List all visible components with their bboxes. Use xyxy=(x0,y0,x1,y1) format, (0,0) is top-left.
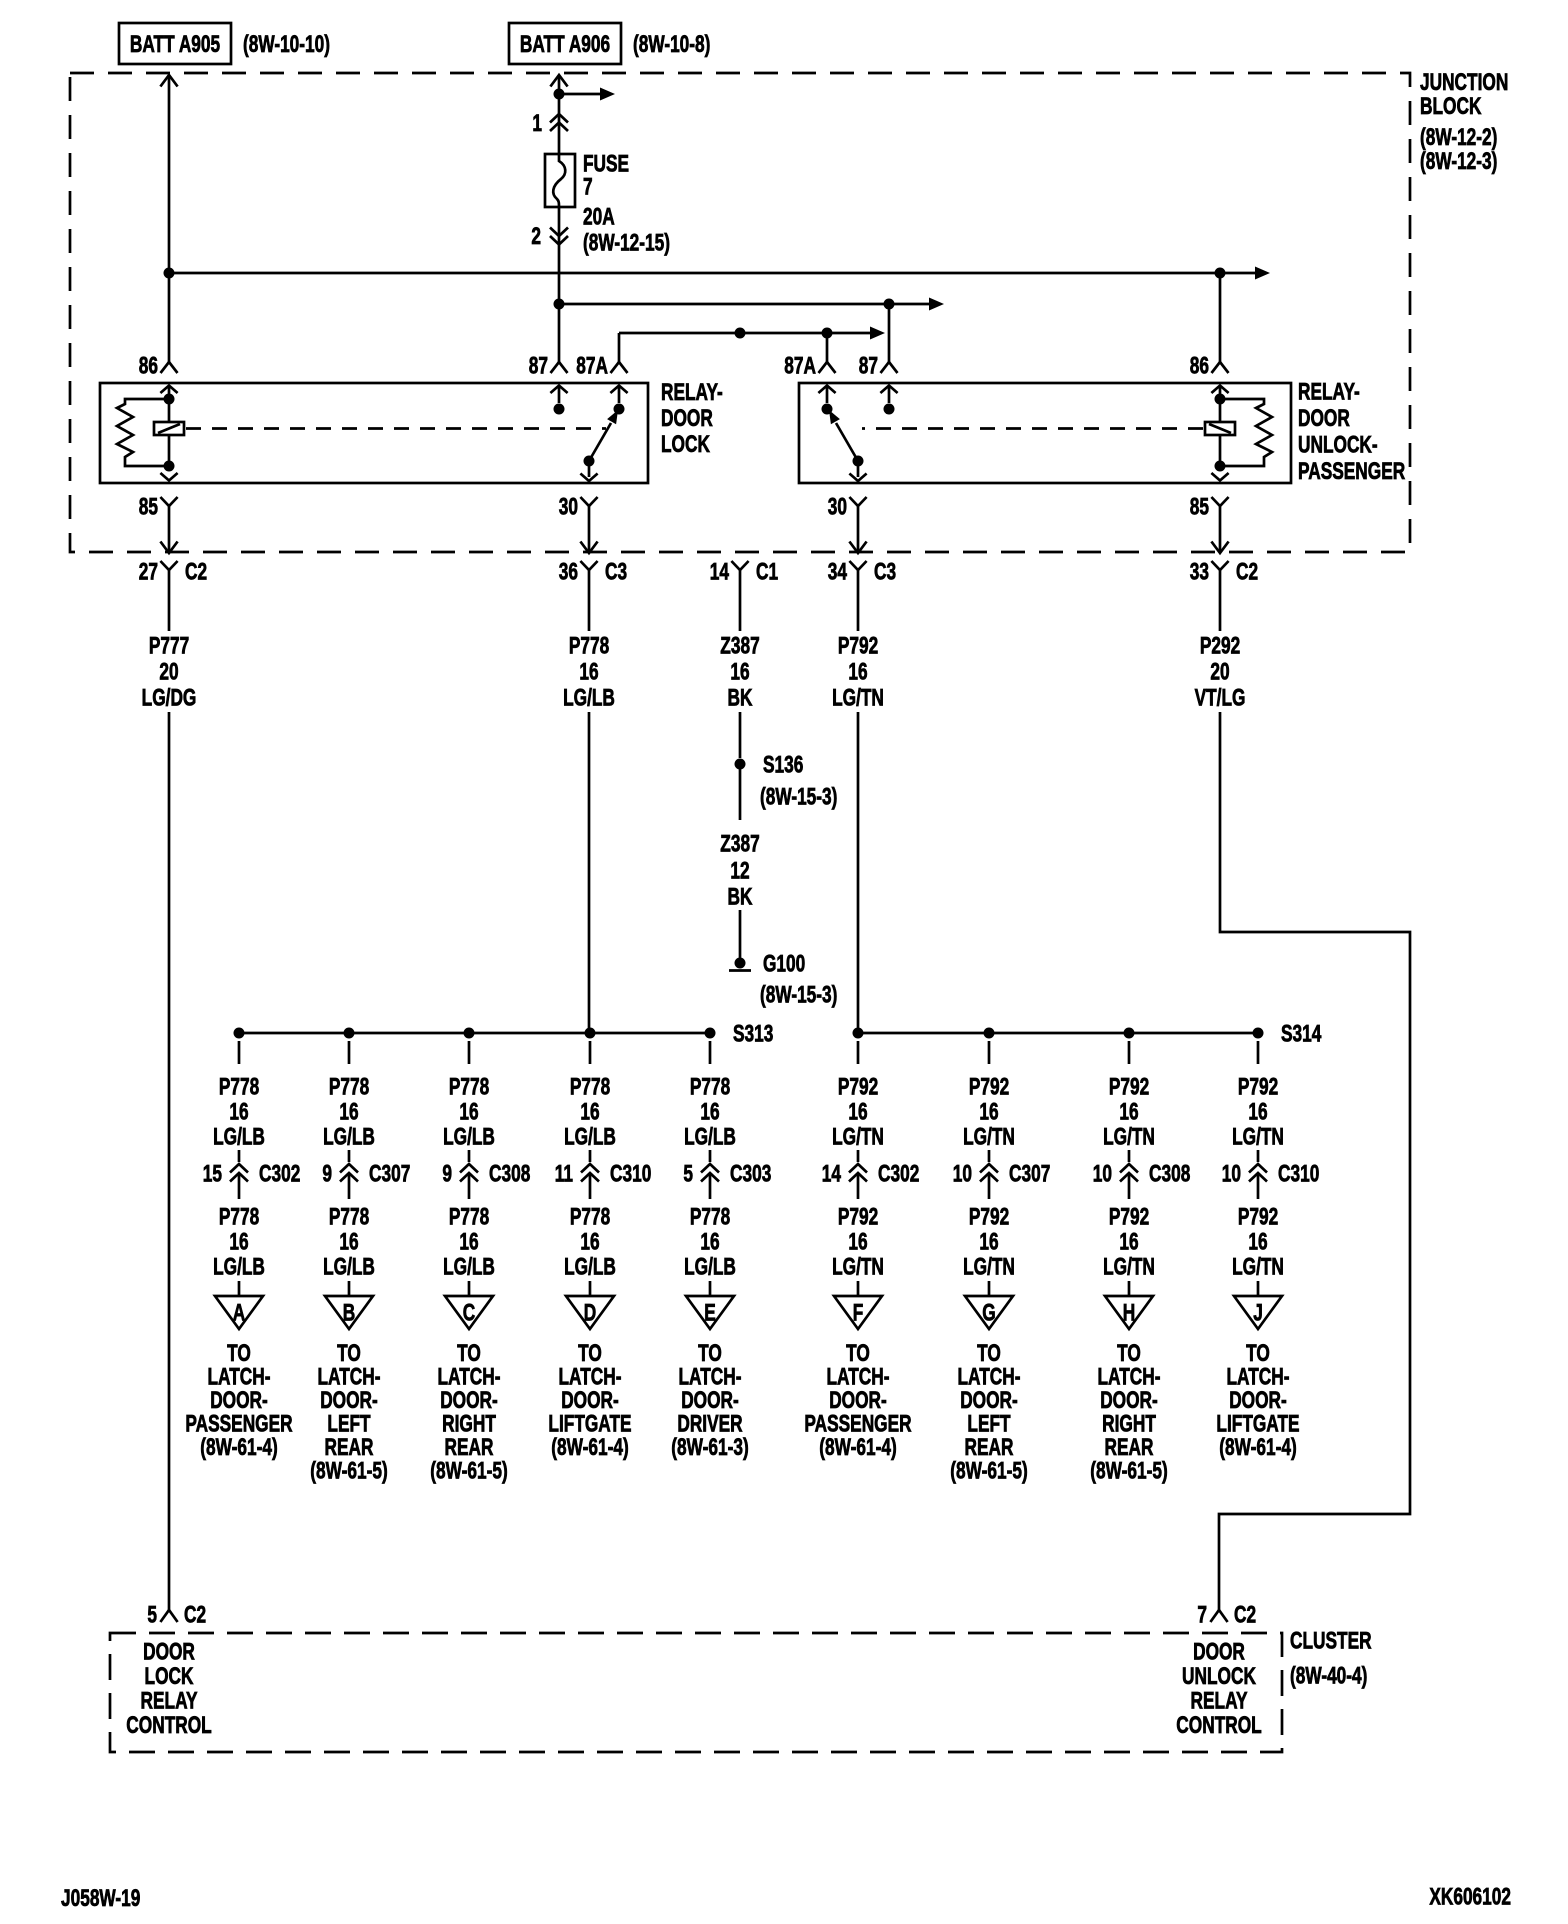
wire P778 branch E (upper) xyxy=(684,1041,736,1150)
svg-text:86: 86 xyxy=(1190,353,1209,379)
svg-text:16: 16 xyxy=(848,659,867,685)
svg-text:P792: P792 xyxy=(1109,1074,1149,1100)
svg-text:TO: TO xyxy=(227,1340,251,1366)
svg-text:C2: C2 xyxy=(185,559,207,585)
connector C2 cavity 33 xyxy=(1190,559,1258,586)
svg-text:LG/TN: LG/TN xyxy=(832,685,884,711)
svg-text:16: 16 xyxy=(700,1099,719,1125)
wire drop to relay-unlock pin 87 xyxy=(888,304,891,362)
svg-text:LG/TN: LG/TN xyxy=(963,1124,1015,1150)
relay RELAY-DOOR LOCK box xyxy=(100,383,648,483)
wire fuse output down to relay pin 87 xyxy=(558,207,561,362)
svg-text:(8W-61-5): (8W-61-5) xyxy=(1090,1458,1167,1484)
svg-text:RELAY: RELAY xyxy=(141,1688,198,1714)
svg-text:DOOR-: DOOR- xyxy=(960,1387,1018,1413)
svg-text:TO: TO xyxy=(977,1340,1001,1366)
svg-text:C2: C2 xyxy=(1234,1602,1256,1628)
svg-text:LATCH-: LATCH- xyxy=(437,1364,500,1390)
svg-text:P777: P777 xyxy=(149,633,189,659)
svg-text:C302: C302 xyxy=(878,1161,919,1187)
splice bus S314 xyxy=(853,1021,1322,1047)
svg-text:(8W-61-4): (8W-61-4) xyxy=(1219,1434,1296,1460)
svg-text:E: E xyxy=(704,1300,716,1326)
svg-text:LG/LB: LG/LB xyxy=(323,1254,375,1280)
svg-text:P778: P778 xyxy=(449,1074,489,1100)
svg-text:BATT A905: BATT A905 xyxy=(130,31,221,57)
svg-text:LG/TN: LG/TN xyxy=(1232,1254,1284,1280)
svg-text:16: 16 xyxy=(730,659,749,685)
svg-text:P778: P778 xyxy=(570,1204,610,1230)
svg-text:85: 85 xyxy=(139,494,159,520)
svg-text:16: 16 xyxy=(848,1099,867,1125)
svg-text:BK: BK xyxy=(728,685,753,711)
svg-text:16: 16 xyxy=(580,1229,599,1255)
relay armature linkage (right relay) xyxy=(862,427,1203,430)
svg-text:LG/LB: LG/LB xyxy=(564,1124,616,1150)
svg-text:15: 15 xyxy=(203,1161,223,1187)
svg-text:RIGHT: RIGHT xyxy=(442,1411,496,1437)
svg-text:1: 1 xyxy=(532,110,542,136)
svg-text:DOOR-: DOOR- xyxy=(829,1387,887,1413)
svg-text:C307: C307 xyxy=(1009,1161,1050,1187)
node branch to off-page arrow xyxy=(554,89,565,100)
wire P792 branch H (lower) xyxy=(1103,1204,1155,1300)
svg-text:20A: 20A xyxy=(583,204,615,230)
svg-text:85: 85 xyxy=(1190,494,1210,520)
component label CLUSTER (8W-40-4) xyxy=(1290,1628,1372,1689)
svg-text:(8W-61-4): (8W-61-4) xyxy=(819,1434,896,1460)
svg-text:7: 7 xyxy=(583,174,593,200)
svg-text:C2: C2 xyxy=(1236,559,1258,585)
connector BATT A905 xyxy=(119,23,231,64)
svg-text:D: D xyxy=(584,1300,596,1326)
svg-text:BATT A906: BATT A906 xyxy=(520,31,610,57)
svg-text:P778: P778 xyxy=(690,1074,730,1100)
pin 87 (left relay) xyxy=(529,353,568,379)
svg-text:LATCH-: LATCH- xyxy=(826,1364,889,1390)
svg-text:P778: P778 xyxy=(570,1074,610,1100)
svg-text:P792: P792 xyxy=(1238,1074,1278,1100)
connector C2 cavity 27 xyxy=(139,559,207,586)
sheet number J058W-19 xyxy=(61,1885,140,1911)
svg-text:(8W-61-4): (8W-61-4) xyxy=(200,1434,277,1460)
cluster boundary xyxy=(110,1633,1282,1752)
svg-text:G: G xyxy=(982,1300,995,1326)
destination label TO LATCH-DOOR-RIGHT-REAR xyxy=(1090,1340,1167,1484)
off-page connector triangle G xyxy=(965,1296,1013,1329)
svg-text:P792: P792 xyxy=(1238,1204,1278,1230)
node junction on feed line 1 xyxy=(164,268,175,279)
svg-text:J058W-19: J058W-19 xyxy=(61,1885,140,1911)
wire feed line 3 (87A bus) xyxy=(619,327,885,363)
wire P778 branch B (upper) xyxy=(323,1041,375,1150)
in-line connector C302 cavity 14 xyxy=(822,1150,920,1199)
svg-text:(8W-61-5): (8W-61-5) xyxy=(310,1458,387,1484)
destination label TO LATCH-DOOR-PASSENGER xyxy=(804,1340,911,1460)
fuse FUSE 7 20A xyxy=(545,154,575,207)
svg-text:JUNCTION: JUNCTION xyxy=(1420,69,1508,95)
wire Z387 16 BK xyxy=(720,586,759,758)
svg-text:LATCH-: LATCH- xyxy=(1226,1364,1289,1390)
wire pin 30 to junction block edge xyxy=(580,522,597,553)
svg-text:LIFTGATE: LIFTGATE xyxy=(548,1411,631,1437)
svg-text:S136: S136 xyxy=(763,752,803,778)
relay armature linkage (left relay) xyxy=(186,427,606,430)
wire P778 branch A (lower) xyxy=(213,1204,265,1300)
svg-text:LEFT: LEFT xyxy=(967,1411,1010,1437)
page reference (8W-10-8) xyxy=(633,31,710,57)
wire P778 branch C (upper) xyxy=(443,1041,495,1150)
svg-text:LATCH-: LATCH- xyxy=(317,1364,380,1390)
svg-text:27: 27 xyxy=(139,559,158,585)
pin 87A (left relay) xyxy=(576,353,627,379)
svg-text:PASSENGER: PASSENGER xyxy=(804,1411,911,1437)
svg-text:DOOR-: DOOR- xyxy=(681,1387,739,1413)
svg-text:(8W-61-5): (8W-61-5) xyxy=(950,1458,1027,1484)
pin 87A (right relay) xyxy=(784,353,835,379)
wire P778 branch A (upper) xyxy=(213,1041,265,1150)
wire P792 16 LG/TN xyxy=(832,586,884,1033)
svg-text:DOOR: DOOR xyxy=(1193,1639,1245,1665)
off-page connector triangle C xyxy=(445,1296,493,1329)
svg-text:Z387: Z387 xyxy=(720,831,759,857)
svg-text:LATCH-: LATCH- xyxy=(558,1364,621,1390)
in-line connector C307 cavity 10 xyxy=(953,1150,1051,1199)
page reference (8W-10-10) xyxy=(243,31,330,57)
wire P778 branch E (lower) xyxy=(684,1204,736,1300)
off-page connector triangle J xyxy=(1234,1296,1282,1329)
in-line connector C310 cavity 10 xyxy=(1222,1150,1320,1199)
svg-text:P778: P778 xyxy=(449,1204,489,1230)
pin 1 in-line connector (fuse block) xyxy=(532,110,568,136)
svg-text:(8W-12-15): (8W-12-15) xyxy=(583,230,670,256)
svg-text:87: 87 xyxy=(859,353,878,379)
svg-text:P292: P292 xyxy=(1200,633,1240,659)
svg-text:DOOR-: DOOR- xyxy=(210,1387,268,1413)
in-line connector C308 cavity 9 xyxy=(442,1150,530,1199)
svg-text:C310: C310 xyxy=(610,1161,651,1187)
svg-text:XK606102: XK606102 xyxy=(1429,1884,1511,1910)
svg-text:TO: TO xyxy=(846,1340,870,1366)
svg-text:(8W-15-3): (8W-15-3) xyxy=(760,784,837,810)
svg-text:LG/TN: LG/TN xyxy=(1103,1254,1155,1280)
svg-text:S314: S314 xyxy=(1281,1021,1322,1047)
relay switch contacts (right relay) xyxy=(818,386,897,482)
svg-text:LG/LB: LG/LB xyxy=(213,1254,265,1280)
wire P777 20 LG/DG xyxy=(142,586,197,1610)
svg-text:16: 16 xyxy=(979,1099,998,1125)
svg-text:87A: 87A xyxy=(576,353,608,379)
svg-text:16: 16 xyxy=(229,1229,248,1255)
svg-text:LIFTGATE: LIFTGATE xyxy=(1216,1411,1299,1437)
off-page connector triangle B xyxy=(325,1296,373,1329)
svg-text:10: 10 xyxy=(1093,1161,1112,1187)
relay RELAY-DOOR UNLOCK-PASSENGER box xyxy=(799,383,1291,483)
svg-text:30: 30 xyxy=(559,494,578,520)
svg-text:Z387: Z387 xyxy=(720,633,759,659)
svg-text:14: 14 xyxy=(822,1161,842,1187)
svg-text:S313: S313 xyxy=(733,1021,773,1047)
wire P792 branch J (upper) xyxy=(1232,1041,1284,1150)
ground G100 xyxy=(729,951,805,977)
svg-text:(8W-12-3): (8W-12-3) xyxy=(1420,148,1497,174)
svg-text:LG/LB: LG/LB xyxy=(684,1124,736,1150)
svg-text:16: 16 xyxy=(339,1099,358,1125)
svg-text:2: 2 xyxy=(531,223,541,249)
in-line connector C308 cavity 10 xyxy=(1093,1150,1191,1199)
svg-text:UNLOCK: UNLOCK xyxy=(1182,1663,1256,1689)
svg-text:LG/LB: LG/LB xyxy=(443,1124,495,1150)
relay coil (left relay) xyxy=(154,386,184,481)
wire P778 branch C (lower) xyxy=(443,1204,495,1300)
node feed line 3 to relay-unlock pin 87A xyxy=(822,328,833,339)
svg-text:H: H xyxy=(1123,1300,1135,1326)
in-line connector C302 cavity 15 xyxy=(203,1150,301,1199)
destination label TO LATCH-DOOR-RIGHT-REAR xyxy=(430,1340,507,1484)
svg-text:DOOR-: DOOR- xyxy=(1229,1387,1287,1413)
wire pin 30 to junction block edge xyxy=(849,522,866,553)
svg-text:C3: C3 xyxy=(605,559,627,585)
svg-text:(8W-12-2): (8W-12-2) xyxy=(1420,124,1497,150)
svg-text:DOOR-: DOOR- xyxy=(561,1387,619,1413)
coil suppression resistor (right relay) xyxy=(1220,399,1272,466)
svg-text:DOOR: DOOR xyxy=(143,1639,195,1665)
relay RELAY-DOOR UNLOCK-PASSENGER label xyxy=(1298,379,1405,485)
wire pin 85 to junction block edge xyxy=(160,522,177,553)
svg-text:C307: C307 xyxy=(369,1161,410,1187)
off-page connector triangle H xyxy=(1105,1296,1153,1329)
svg-text:P778: P778 xyxy=(569,633,609,659)
node feed line 2 to relay-unlock pin 87 xyxy=(884,299,895,310)
svg-text:(8W-61-4): (8W-61-4) xyxy=(551,1434,628,1460)
destination label TO LATCH-DOOR-DRIVER xyxy=(671,1340,748,1460)
svg-text:LG/TN: LG/TN xyxy=(832,1124,884,1150)
svg-text:(8W-10-10): (8W-10-10) xyxy=(243,31,330,57)
svg-text:DOOR: DOOR xyxy=(1298,405,1350,431)
in-line connector C307 cavity 9 xyxy=(322,1150,410,1199)
svg-text:16: 16 xyxy=(459,1099,478,1125)
pin 85 (left relay) xyxy=(139,494,178,522)
connector C1 cavity 14 xyxy=(710,559,779,586)
svg-text:F: F xyxy=(853,1300,864,1326)
pin 86 (left relay) xyxy=(139,353,178,379)
wire BATT A906 feed with entry arrow xyxy=(550,75,567,154)
svg-text:5: 5 xyxy=(147,1602,157,1628)
svg-text:36: 36 xyxy=(559,559,578,585)
wire P292 20 VT/LG xyxy=(1195,586,1410,1610)
svg-text:RELAY-: RELAY- xyxy=(661,379,723,405)
svg-text:P778: P778 xyxy=(690,1204,730,1230)
svg-text:G100: G100 xyxy=(763,951,805,977)
svg-text:CLUSTER: CLUSTER xyxy=(1290,1628,1372,1654)
splice bus S313 xyxy=(234,1021,774,1047)
svg-text:(8W-61-3): (8W-61-3) xyxy=(671,1434,748,1460)
svg-text:REAR: REAR xyxy=(965,1434,1014,1460)
page reference (8W-15-3) for G100 xyxy=(760,982,837,1008)
svg-text:TO: TO xyxy=(578,1340,602,1366)
svg-text:TO: TO xyxy=(1117,1340,1141,1366)
svg-text:P792: P792 xyxy=(838,1204,878,1230)
svg-text:LG/LB: LG/LB xyxy=(323,1124,375,1150)
svg-text:C303: C303 xyxy=(730,1161,771,1187)
svg-text:16: 16 xyxy=(700,1229,719,1255)
svg-text:PASSENGER: PASSENGER xyxy=(1298,458,1405,484)
svg-text:12: 12 xyxy=(730,858,749,884)
svg-text:C3: C3 xyxy=(874,559,896,585)
svg-text:TO: TO xyxy=(698,1340,722,1366)
svg-text:LOCK: LOCK xyxy=(661,431,710,457)
svg-text:PASSENGER: PASSENGER xyxy=(185,1411,292,1437)
node fuse output branch xyxy=(554,299,565,310)
svg-text:(8W-10-8): (8W-10-8) xyxy=(633,31,710,57)
svg-text:LATCH-: LATCH- xyxy=(1097,1364,1160,1390)
in-line connector C303 cavity 5 xyxy=(683,1150,771,1199)
svg-text:LG/TN: LG/TN xyxy=(963,1254,1015,1280)
off-page connector triangle E xyxy=(686,1296,734,1329)
pin 30 (right relay) xyxy=(828,494,867,522)
svg-text:C302: C302 xyxy=(259,1161,300,1187)
svg-text:16: 16 xyxy=(1248,1229,1267,1255)
svg-text:16: 16 xyxy=(339,1229,358,1255)
svg-text:DOOR: DOOR xyxy=(661,405,713,431)
wire drop to relay-unlock pin 86 xyxy=(1219,273,1222,362)
fuse label FUSE 7 20A (8W-12-15) xyxy=(583,151,670,256)
svg-text:7: 7 xyxy=(1197,1602,1207,1628)
svg-text:16: 16 xyxy=(1248,1099,1267,1125)
svg-text:14: 14 xyxy=(710,559,730,585)
svg-text:16: 16 xyxy=(848,1229,867,1255)
svg-text:J: J xyxy=(1253,1300,1263,1326)
svg-text:C308: C308 xyxy=(1149,1161,1190,1187)
svg-text:P778: P778 xyxy=(219,1204,259,1230)
svg-text:P792: P792 xyxy=(838,1074,878,1100)
wire P792 branch F (upper) xyxy=(832,1041,884,1150)
in-line connector C310 cavity 11 xyxy=(555,1150,652,1199)
svg-text:C: C xyxy=(463,1300,475,1326)
svg-text:RIGHT: RIGHT xyxy=(1102,1411,1156,1437)
pin 86 (right relay) xyxy=(1190,353,1229,379)
svg-text:LG/LB: LG/LB xyxy=(563,685,615,711)
relay coil (right relay) xyxy=(1205,386,1235,481)
svg-text:87: 87 xyxy=(529,353,548,379)
coil suppression resistor (left relay) xyxy=(117,399,169,466)
svg-text:P792: P792 xyxy=(1109,1204,1149,1230)
svg-text:P778: P778 xyxy=(329,1074,369,1100)
destination label TO LATCH-DOOR-LIFTGATE xyxy=(548,1340,631,1460)
svg-text:LG/TN: LG/TN xyxy=(832,1254,884,1280)
svg-text:9: 9 xyxy=(442,1161,452,1187)
wire P778 branch B (lower) xyxy=(323,1204,375,1300)
destination label TO LATCH-DOOR-LEFT-REAR xyxy=(950,1340,1027,1484)
svg-text:87A: 87A xyxy=(784,353,816,379)
drawing number XK606102 xyxy=(1429,1884,1511,1910)
connector BATT A906 xyxy=(509,23,621,64)
svg-text:REAR: REAR xyxy=(325,1434,374,1460)
splice S136 xyxy=(735,752,804,778)
svg-text:DOOR-: DOOR- xyxy=(1100,1387,1158,1413)
svg-text:33: 33 xyxy=(1190,559,1209,585)
svg-text:P792: P792 xyxy=(838,633,878,659)
svg-text:34: 34 xyxy=(828,559,848,585)
node feed line 3 to Z387 ground leg xyxy=(735,328,746,339)
svg-text:B: B xyxy=(343,1300,355,1326)
relay switch contacts (left relay) xyxy=(550,386,627,482)
svg-text:10: 10 xyxy=(1222,1161,1241,1187)
svg-text:DRIVER: DRIVER xyxy=(677,1411,742,1437)
svg-text:CONTROL: CONTROL xyxy=(126,1712,212,1738)
svg-text:CONTROL: CONTROL xyxy=(1176,1712,1262,1738)
off-page connector triangle F xyxy=(834,1296,882,1329)
svg-text:5: 5 xyxy=(683,1161,693,1187)
svg-text:BK: BK xyxy=(728,884,753,910)
wire drop to relay-unlock pin 87A xyxy=(826,333,829,362)
svg-text:P792: P792 xyxy=(969,1074,1009,1100)
wire off-page branch arrow xyxy=(559,88,615,101)
wire feed line 2 (87 bus) xyxy=(559,298,944,311)
wire P792 branch G (lower) xyxy=(963,1204,1015,1300)
svg-text:16: 16 xyxy=(459,1229,478,1255)
node feed line 1 to relay-unlock pin 86 xyxy=(1215,268,1226,279)
relay RELAY-DOOR LOCK label xyxy=(661,379,723,457)
svg-text:P778: P778 xyxy=(329,1204,369,1230)
svg-text:86: 86 xyxy=(139,353,158,379)
wire Z387 segment label to G100 xyxy=(739,910,742,958)
svg-text:LATCH-: LATCH- xyxy=(678,1364,741,1390)
svg-text:DOOR-: DOOR- xyxy=(440,1387,498,1413)
svg-text:9: 9 xyxy=(322,1161,332,1187)
svg-text:UNLOCK-: UNLOCK- xyxy=(1298,432,1378,458)
pin 85 (right relay) xyxy=(1190,494,1229,522)
svg-text:LATCH-: LATCH- xyxy=(207,1364,270,1390)
svg-text:30: 30 xyxy=(828,494,847,520)
pin 87 (right relay) xyxy=(859,353,898,379)
wire pin 85 to junction block edge xyxy=(1211,522,1228,553)
svg-text:LG/LB: LG/LB xyxy=(564,1254,616,1280)
svg-text:C310: C310 xyxy=(1278,1161,1319,1187)
svg-text:LG/LB: LG/LB xyxy=(443,1254,495,1280)
off-page connector triangle A xyxy=(215,1296,263,1329)
svg-text:P778: P778 xyxy=(219,1074,259,1100)
svg-text:REAR: REAR xyxy=(1105,1434,1154,1460)
wire P778 branch D (lower) xyxy=(564,1204,616,1300)
svg-text:C1: C1 xyxy=(756,559,778,585)
wire P792 branch F (lower) xyxy=(832,1204,884,1300)
svg-text:16: 16 xyxy=(580,1099,599,1125)
wire P778 16 LG/LB xyxy=(563,586,615,1033)
svg-text:LG/TN: LG/TN xyxy=(1232,1124,1284,1150)
connector C2 cavity 5 xyxy=(147,1602,206,1628)
cluster input label DOOR UNLOCK RELAY CONTROL xyxy=(1176,1639,1262,1739)
junction block boundary xyxy=(70,73,1410,552)
svg-text:LG/LB: LG/LB xyxy=(213,1124,265,1150)
destination label TO LATCH-DOOR-LIFTGATE xyxy=(1216,1340,1299,1460)
wire P792 branch J (lower) xyxy=(1232,1204,1284,1300)
wire BATT A905 feed with entry arrow xyxy=(160,75,177,362)
svg-text:LG/DG: LG/DG xyxy=(142,685,197,711)
svg-text:REAR: REAR xyxy=(445,1434,494,1460)
svg-text:TO: TO xyxy=(457,1340,481,1366)
destination label TO LATCH-DOOR-LEFT-REAR xyxy=(310,1340,387,1484)
svg-text:P792: P792 xyxy=(969,1204,1009,1230)
svg-text:16: 16 xyxy=(1119,1099,1138,1125)
pin 2 in-line connector (fuse block) xyxy=(531,223,568,249)
cluster input label DOOR LOCK RELAY CONTROL xyxy=(126,1639,212,1739)
svg-text:BLOCK: BLOCK xyxy=(1420,93,1481,119)
wire Z387 12 BK xyxy=(720,831,759,910)
svg-text:VT/LG: VT/LG xyxy=(1195,685,1246,711)
svg-text:16: 16 xyxy=(579,659,598,685)
svg-text:16: 16 xyxy=(229,1099,248,1125)
